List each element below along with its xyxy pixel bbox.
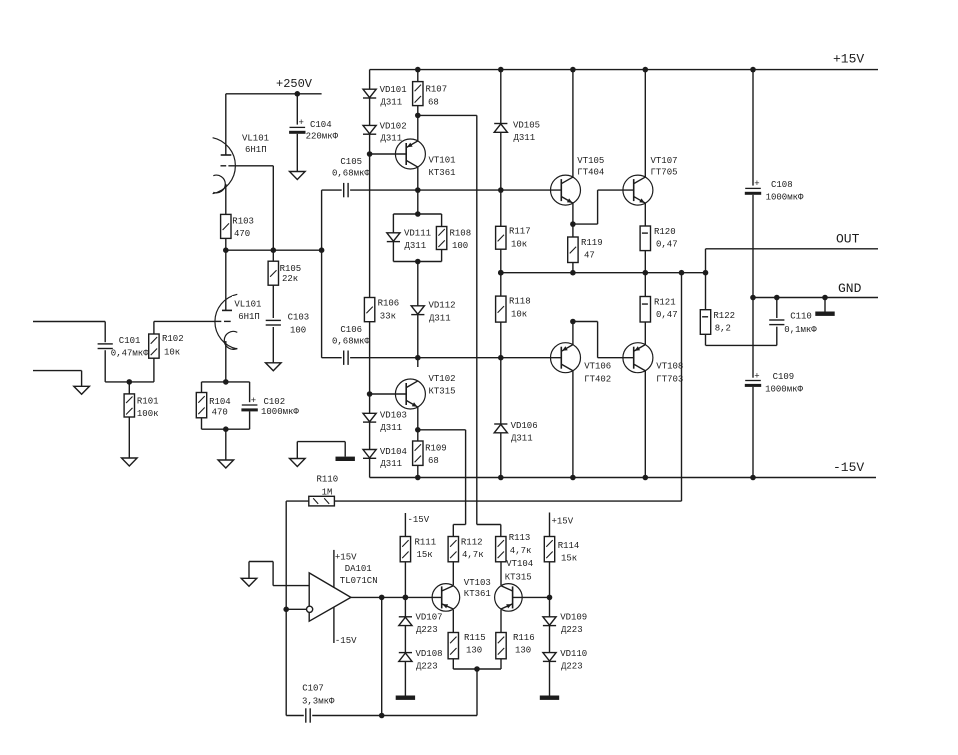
svg-text:Д223: Д223 [416, 625, 438, 635]
resistor R112 [448, 537, 484, 562]
wire to VD103 [369, 394, 371, 413]
wire R110 to feedback drop [334, 500, 681, 502]
svg-text:Д311: Д311 [405, 241, 427, 251]
svg-text:VD106: VD106 [511, 421, 538, 431]
wire to C101 [104, 322, 106, 343]
svg-text:220мкФ: 220мкФ [306, 132, 339, 142]
svg-text:VD102: VD102 [380, 121, 407, 131]
label VT104 [505, 559, 534, 583]
junction [367, 391, 373, 397]
wire down to base level [597, 322, 599, 358]
label VD110 [560, 649, 587, 672]
junction [679, 270, 685, 276]
svg-text:4,7к: 4,7к [462, 550, 484, 560]
wire node to R101 [128, 382, 130, 394]
wire VT102 base [370, 393, 407, 395]
svg-text:Д223: Д223 [561, 662, 583, 672]
label VD106 [511, 421, 538, 444]
wire VT101 collector down [417, 167, 419, 214]
ground R101 [122, 458, 138, 466]
resistor R120 [640, 226, 678, 251]
svg-text:6Н1П: 6Н1П [245, 145, 267, 155]
wire VT102 emitter down [417, 407, 419, 430]
svg-text:-15V: -15V [408, 515, 430, 525]
svg-text:VT103: VT103 [464, 578, 491, 588]
svg-text:+: + [754, 179, 759, 189]
resistor R107 [413, 82, 448, 108]
label VD111 [404, 229, 431, 252]
junction [223, 426, 229, 432]
wire block to ground [225, 429, 227, 460]
wire R113 to VT104 [500, 562, 502, 585]
svg-text:33к: 33к [380, 312, 396, 322]
resistor R113 [496, 533, 532, 562]
wire block to VD112 [417, 262, 419, 306]
plates [306, 708, 310, 722]
ground R104/C102 [218, 460, 234, 468]
transistor VT102 [395, 379, 425, 409]
junction [703, 270, 709, 276]
svg-text:22к: 22к [282, 274, 298, 284]
wire VT108 collector to rail [644, 371, 646, 478]
wire block left lower [392, 242, 394, 262]
diode VD103 [363, 413, 376, 422]
capacitor C108 [745, 179, 761, 195]
svg-text:C102: C102 [264, 397, 286, 407]
svg-text:C107: C107 [302, 684, 324, 694]
plates [266, 320, 281, 325]
wire C105-C106 left leg [321, 190, 323, 358]
label VD112 [429, 301, 456, 324]
wire mid rail to R121 [644, 273, 646, 297]
svg-text:TL071CN: TL071CN [340, 576, 378, 586]
junction [547, 595, 553, 601]
tube VL101 lower cathode [224, 331, 237, 349]
svg-text:VD103: VD103 [380, 410, 407, 420]
junction [643, 475, 649, 481]
svg-text:R115: R115 [464, 633, 486, 643]
svg-text:1000мкФ: 1000мкФ [766, 193, 804, 203]
wire R106 to VT102 base [369, 322, 371, 394]
svg-text:R114: R114 [558, 541, 580, 551]
svg-text:VL101: VL101 [242, 134, 269, 144]
svg-text:VT104: VT104 [506, 559, 533, 569]
junction [822, 295, 828, 301]
label C109 [765, 372, 803, 395]
label VD101 [380, 85, 407, 107]
svg-text:R119: R119 [581, 238, 603, 248]
ground op-amp input [241, 578, 257, 586]
svg-text:47: 47 [584, 251, 595, 261]
svg-text:VT106: VT106 [584, 362, 611, 372]
wire C110 to GND row [776, 298, 778, 319]
wire up [272, 562, 274, 586]
svg-text:R109: R109 [425, 444, 447, 454]
label VT106 [584, 362, 611, 385]
capacitor C105 [332, 157, 370, 197]
op-amp DA101 [307, 550, 378, 646]
transistor VT104 [495, 584, 523, 612]
svg-text:R107: R107 [426, 85, 448, 95]
resistor R114 [544, 537, 579, 564]
wire cathode block top [202, 381, 250, 383]
resistor R115 [448, 633, 486, 659]
junction [379, 595, 385, 601]
transistor VT106 [551, 343, 581, 373]
svg-text:15к: 15к [417, 550, 433, 560]
resistor R102 [149, 334, 184, 358]
svg-text:130: 130 [515, 646, 531, 656]
wire R111 to VD107 [404, 562, 406, 617]
svg-text:10к: 10к [511, 310, 527, 320]
wire block left upper [392, 214, 394, 233]
wire emitter join [453, 668, 501, 670]
junction [570, 319, 576, 325]
resistor R122 [700, 310, 735, 335]
diode VD102 [363, 125, 376, 134]
label VT103 [464, 578, 491, 599]
chassis ground GND [815, 312, 834, 316]
svg-text:6Н1П: 6Н1П [238, 312, 260, 322]
wire C105 row to VT105 base [350, 189, 561, 191]
svg-text:GND: GND [838, 281, 862, 296]
svg-text:C110: C110 [790, 311, 812, 321]
label VD105 [513, 121, 540, 144]
wire VT107 emitter to R120 [644, 203, 646, 226]
diode VD107 [399, 617, 412, 626]
svg-text:68: 68 [428, 456, 439, 466]
net +250V rail [226, 77, 322, 94]
capacitor C104 [289, 118, 305, 134]
junction [271, 247, 277, 253]
wire VD108 to chassis [404, 661, 406, 695]
capacitor C102 [241, 396, 257, 412]
VD111/R108 block bottom [393, 261, 441, 263]
wire VD109 to VD110 [549, 626, 551, 653]
junction [750, 475, 756, 481]
capacitor C109 [745, 371, 761, 387]
svg-text:4,7к: 4,7к [510, 546, 532, 556]
svg-text:R106: R106 [378, 299, 400, 309]
wire to R104 [201, 382, 203, 393]
wire rail to C104 [296, 94, 298, 125]
wire R122 down [705, 334, 707, 345]
wire to C107 [286, 715, 304, 717]
wire rail to VD101 [369, 70, 371, 90]
wire cathode block bottom [202, 428, 250, 430]
net -15V rail [370, 460, 876, 478]
wire grid feedback down [272, 166, 274, 250]
svg-text:0,68мкФ: 0,68мкФ [332, 336, 370, 346]
wire to ground [248, 562, 250, 579]
junction [223, 379, 229, 385]
wire R102 to grid VL101.2 [154, 320, 215, 322]
tube VL101 upper cathode [213, 175, 225, 193]
junction [415, 113, 421, 119]
label R110 [317, 475, 339, 498]
wire OUT down to R122 [705, 249, 707, 310]
svg-text:0,47: 0,47 [656, 310, 678, 320]
tube VL101 envelope (lower triode) [215, 294, 237, 349]
svg-text:КТ315: КТ315 [505, 573, 532, 583]
tube VL101 upper grid [221, 165, 274, 167]
wire emitter to VT107 base [573, 223, 598, 225]
wire GND to chassis [824, 298, 826, 312]
label VD103 [380, 410, 407, 432]
wire VT103 to R115 [452, 610, 454, 633]
wire R103 to node [225, 238, 227, 250]
wire R101 to ground [128, 417, 130, 458]
wire R114 down [549, 562, 551, 598]
svg-text:VD111: VD111 [404, 229, 431, 239]
svg-text:3,3мкФ: 3,3мкФ [302, 697, 335, 707]
wire C104 to ground [296, 134, 298, 172]
wire C102 down [249, 411, 251, 429]
wire block right upper [441, 214, 443, 227]
tube VL101 envelope (upper triode) [213, 138, 236, 194]
junction [570, 67, 576, 73]
svg-text:C104: C104 [310, 120, 332, 130]
junction [643, 270, 649, 276]
svg-text:VT107: VT107 [651, 156, 678, 166]
junction [415, 259, 421, 265]
capacitor C101 [98, 336, 150, 358]
svg-text:+: + [299, 118, 304, 128]
wire R115 down [452, 659, 454, 669]
transistor VT105 [551, 175, 581, 205]
svg-text:+250V: +250V [276, 77, 313, 91]
svg-text:R112: R112 [461, 538, 483, 548]
junction [643, 67, 649, 73]
svg-text:КТ361: КТ361 [429, 168, 456, 178]
net +15V stub [550, 513, 574, 537]
label VT108 [656, 362, 683, 385]
wire jog to R113 [477, 524, 501, 526]
svg-text:R118: R118 [509, 297, 531, 307]
wire R117 to R118 [500, 249, 502, 296]
wire R119 to mid rail [572, 263, 574, 273]
wire C101 to node [104, 350, 106, 382]
chassis ground VD108 [396, 696, 415, 700]
svg-text:R105: R105 [280, 264, 302, 274]
wire left [249, 561, 273, 563]
resistor R119 [568, 237, 603, 263]
wire input signal [33, 321, 105, 323]
chassis ground VD110 [540, 696, 559, 700]
label VL101 upper [238, 130, 272, 155]
label VT101 [429, 156, 456, 179]
label VT107 [651, 156, 678, 178]
junction [283, 607, 289, 613]
svg-text:Д311: Д311 [381, 97, 403, 107]
wire output to C107 row [381, 597, 383, 715]
resistor R121 [640, 297, 678, 323]
wire drop to R112 [465, 430, 467, 525]
junction [498, 270, 504, 276]
junction [403, 595, 409, 601]
tube VL101 lower grid [215, 320, 230, 322]
svg-text:1000мкФ: 1000мкФ [765, 385, 803, 395]
diode VD101 [363, 89, 376, 98]
wire VT106 collector to rail [572, 371, 574, 478]
svg-text:VD107: VD107 [416, 613, 443, 623]
label VD108 [416, 649, 443, 672]
wire GND row to C109 [752, 298, 754, 378]
wire VD106 to rail [500, 433, 502, 478]
wire VT106 emitter up [572, 322, 574, 345]
transistor VT101 [395, 139, 425, 169]
VD111/R108 block top [393, 213, 441, 215]
svg-text:+15V: +15V [833, 52, 864, 67]
transistor VT107 [623, 175, 653, 205]
junction [774, 295, 780, 301]
wire C108 to GND row [752, 195, 754, 298]
net -15V stub [405, 513, 429, 537]
svg-text:VT102: VT102 [429, 374, 456, 384]
wire R104 down [201, 418, 203, 429]
svg-text:10к: 10к [511, 240, 527, 250]
svg-text:КТ361: КТ361 [464, 589, 491, 599]
svg-text:VD108: VD108 [416, 649, 443, 659]
wire R121 to VT108 emitter [644, 322, 646, 345]
junction [498, 270, 504, 276]
wire node to R105 [272, 250, 274, 261]
svg-text:130: 130 [466, 646, 482, 656]
svg-text:470: 470 [212, 408, 228, 418]
svg-text:100к: 100к [137, 409, 159, 419]
wire to VD109 [549, 597, 551, 616]
wire VD105 to R117 [500, 132, 502, 226]
wire block right lower [441, 250, 443, 262]
junction [415, 355, 421, 361]
wire up to base level [597, 190, 599, 224]
svg-text:R113: R113 [509, 533, 531, 543]
svg-text:R120: R120 [654, 227, 676, 237]
wire input node [105, 381, 154, 383]
svg-text:Д311: Д311 [381, 134, 403, 144]
resistor R104 [196, 393, 230, 418]
svg-text:15к: 15к [561, 554, 577, 564]
junction [498, 67, 504, 73]
junction [750, 67, 756, 73]
resistor R118 [496, 296, 531, 322]
svg-text:VL101: VL101 [234, 300, 261, 310]
label VD107 [416, 613, 443, 636]
svg-text:Д311: Д311 [380, 459, 402, 469]
wire VD112 to C106 row [417, 315, 419, 358]
resistor R110 [309, 496, 335, 506]
label C108 [766, 180, 804, 203]
resistor R101 [124, 394, 158, 419]
wire rail to VT105 collector [572, 70, 574, 178]
svg-text:0,47мкФ: 0,47мкФ [111, 348, 149, 358]
wire C103 to ground [272, 327, 274, 363]
wire R107 to VT101 emitter [417, 106, 419, 141]
svg-text:R104: R104 [209, 397, 231, 407]
label VD104 [380, 447, 407, 469]
junction [319, 247, 325, 253]
ground C104 [290, 172, 306, 180]
wire C107 row [312, 715, 477, 717]
svg-text:C106: C106 [340, 325, 362, 335]
svg-text:+: + [754, 371, 759, 381]
label C104 [306, 120, 339, 142]
wire VT104 to R116 [500, 610, 502, 633]
svg-text:-15V: -15V [335, 636, 357, 646]
wire up to R115/R116 node [476, 669, 478, 716]
wire anode node row [226, 249, 322, 251]
junction [570, 221, 576, 227]
label VT102 [429, 374, 456, 397]
junction [295, 91, 301, 97]
wire into R113 [500, 525, 502, 537]
svg-text:VT101: VT101 [429, 156, 456, 166]
wire feedback drop [681, 273, 683, 501]
diode VD105 [494, 124, 507, 133]
svg-text:C103: C103 [288, 313, 310, 323]
junction [415, 475, 421, 481]
svg-text:R122: R122 [713, 311, 735, 321]
svg-text:R108: R108 [450, 229, 472, 239]
svg-text:+15V: +15V [335, 552, 357, 562]
wire non-inverting input [273, 585, 309, 587]
wire VT108 base [598, 357, 634, 359]
wire jog to R112 [453, 524, 465, 526]
resistor R108 [436, 227, 471, 252]
wire output node rail [501, 272, 706, 274]
svg-text:470: 470 [234, 229, 250, 239]
wire VD103 to VD104 [369, 422, 371, 449]
wire emitter to VT108 base [573, 321, 598, 323]
wire op-amp output [351, 596, 442, 598]
wire cathode to R103 [225, 184, 227, 214]
diode VD104 [363, 450, 376, 459]
junction [223, 247, 229, 253]
svg-text:VD105: VD105 [513, 121, 540, 131]
svg-text:КТ315: КТ315 [429, 387, 456, 397]
svg-text:R117: R117 [509, 227, 531, 237]
junction [750, 295, 756, 301]
wire VT102 collector up [417, 358, 419, 367]
wire rail to VT107 collector [644, 70, 646, 178]
wire ground tie [297, 441, 345, 443]
chassis ground tie [336, 457, 355, 461]
wire rail to C108 [752, 70, 754, 186]
svg-text:68: 68 [428, 98, 439, 108]
svg-text:100: 100 [290, 326, 306, 336]
capacitor C101 plates [98, 344, 113, 349]
label VL101 lower [232, 296, 264, 322]
net OUT [706, 232, 879, 249]
resistor R103 [221, 214, 254, 239]
tube VL101 upper anode [221, 94, 232, 155]
wire VD110 to chassis [549, 661, 551, 695]
plates [344, 183, 348, 197]
wire to C102 [249, 382, 251, 402]
junction [570, 270, 576, 276]
wire inverting input [286, 608, 306, 610]
junction [379, 713, 385, 719]
svg-text:1000мкФ: 1000мкФ [261, 407, 299, 417]
junction [367, 151, 373, 157]
junction [403, 595, 409, 601]
svg-text:8,2: 8,2 [715, 324, 731, 334]
junction [570, 475, 576, 481]
capacitor C107 [302, 684, 335, 723]
svg-text:R103: R103 [232, 217, 254, 227]
junction [498, 475, 504, 481]
capacitor C110 [769, 311, 817, 334]
